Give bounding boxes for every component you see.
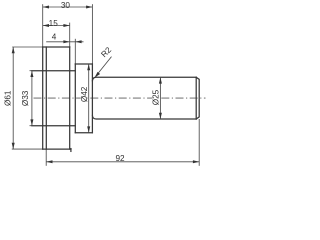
- svg-text:4: 4: [52, 33, 57, 42]
- svg-text:Ø25: Ø25: [152, 89, 161, 105]
- svg-text:30: 30: [61, 1, 71, 10]
- svg-text:15: 15: [49, 19, 59, 28]
- svg-text:Ø33: Ø33: [21, 90, 30, 106]
- svg-text:Ø61: Ø61: [4, 90, 13, 106]
- svg-text:Ø42: Ø42: [80, 86, 89, 102]
- svg-text:92: 92: [115, 154, 125, 163]
